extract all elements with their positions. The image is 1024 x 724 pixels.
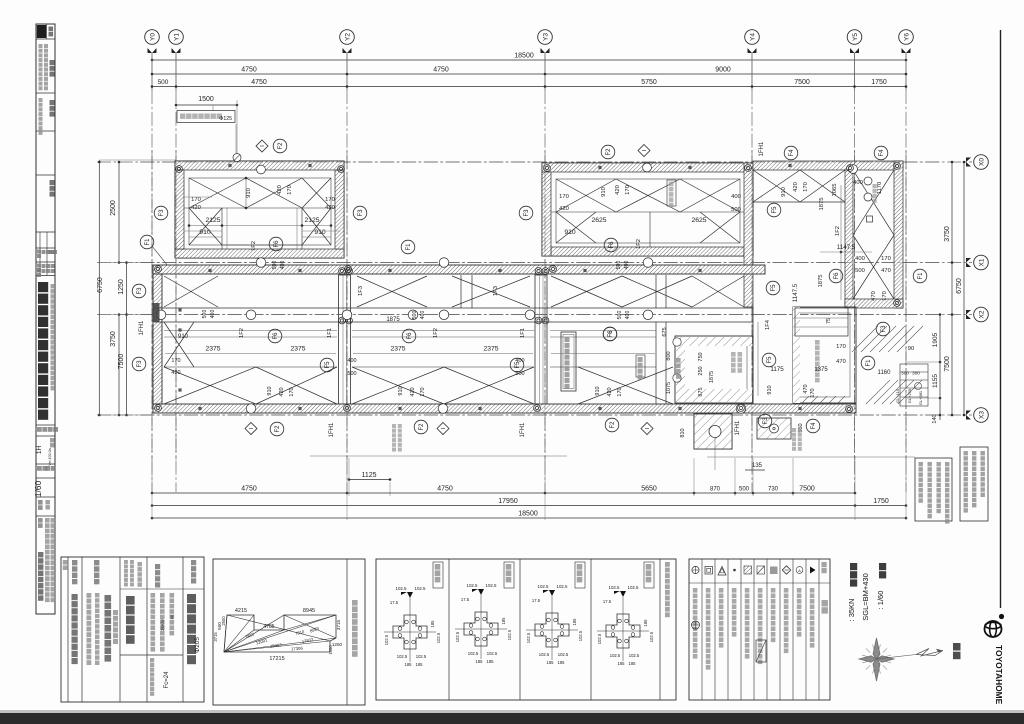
svg-text:170: 170 [289, 387, 295, 396]
svg-text:185: 185 [547, 660, 555, 665]
svg-text:F3: F3 [137, 287, 143, 295]
svg-text:675: 675 [662, 327, 668, 336]
title block frame [36, 24, 55, 614]
svg-text:500: 500 [617, 311, 623, 320]
svg-text:910: 910 [767, 385, 773, 394]
svg-text:420: 420 [171, 370, 180, 376]
svg-text:185: 185 [629, 661, 637, 666]
grid overlay lines [151, 150, 153, 460]
grid bubble X0 [974, 155, 989, 170]
grid bubble X1 [974, 255, 989, 270]
row3 mid line [164, 336, 337, 338]
svg-text:500: 500 [272, 261, 278, 270]
row3 mark F5 a [320, 358, 334, 372]
vertical wall x753 lower [752, 307, 754, 403]
wing label IFGao [873, 184, 877, 188]
svg-text:1F2: 1F2 [251, 241, 257, 251]
svg-text:170: 170 [881, 256, 891, 262]
title checker label [50, 180, 55, 185]
damp-proof concrete box [561, 332, 576, 391]
svg-text:F3: F3 [159, 209, 165, 217]
svg-text:Y0: Y0 [149, 33, 156, 41]
row1 braces [164, 276, 218, 307]
grid bubble Y2 [340, 30, 355, 45]
svg-text:1065: 1065 [832, 184, 838, 197]
svg-text:1F2: 1F2 [433, 328, 439, 338]
block A dim line 2125 [189, 225, 331, 227]
right mark F1 [913, 269, 927, 283]
svg-text:F2: F2 [275, 425, 281, 433]
svg-text:102.5: 102.5 [487, 651, 498, 656]
svg-text:2500: 2500 [221, 616, 226, 626]
svg-text:910: 910 [564, 229, 576, 236]
svg-text:1500: 1500 [328, 645, 333, 655]
svg-text:F5: F5 [771, 284, 777, 292]
block A wall hatch left [175, 170, 184, 249]
svg-text:185: 185 [416, 662, 424, 667]
svg-text:470: 470 [803, 384, 809, 393]
outline polygon [224, 615, 336, 652]
svg-text:810: 810 [680, 428, 686, 437]
svg-text:1750: 1750 [873, 498, 889, 505]
svg-text:170: 170 [617, 387, 623, 396]
anchor panel tsubasa [606, 614, 640, 648]
svg-text:500: 500 [412, 311, 418, 320]
svg-text:170: 170 [836, 344, 846, 350]
porch step block [694, 414, 732, 449]
svg-text:750: 750 [698, 352, 704, 361]
svg-text:F4: F4 [811, 422, 817, 430]
porch mark F4 [806, 419, 820, 433]
svg-text:1075: 1075 [666, 382, 672, 394]
svg-text:Y4: Y4 [749, 33, 756, 41]
svg-text:170: 170 [625, 185, 631, 195]
block B outer wall [542, 163, 753, 256]
svg-text:185: 185 [487, 659, 495, 664]
title product type row [37, 427, 42, 432]
outline diagonals [224, 615, 227, 652]
bottom dimension row1 [152, 492, 855, 494]
main left wall [153, 274, 162, 404]
bottom F3 mark [758, 414, 772, 428]
svg-text:102.5: 102.5 [557, 584, 569, 589]
block A wall hatch top [175, 161, 344, 170]
vent note label [177, 111, 235, 123]
svg-text:1875: 1875 [709, 371, 715, 383]
svg-text:F5: F5 [325, 361, 331, 369]
svg-text:1/60: 1/60 [33, 480, 43, 497]
block B right wall [744, 163, 753, 307]
block B mark F6 [604, 238, 618, 252]
spec col ground header [124, 560, 128, 564]
grid bubble Y3 [538, 30, 553, 45]
block A interior beams [184, 207, 335, 209]
block A braces [189, 178, 246, 208]
mid wall V2 [535, 275, 547, 404]
svg-text:500: 500 [731, 207, 741, 213]
svg-text:5750: 5750 [641, 79, 657, 86]
svg-text:1F3: 1F3 [358, 286, 364, 296]
svg-text:6750: 6750 [956, 278, 963, 294]
entrance slab [675, 336, 753, 403]
svg-text:F2: F2 [610, 421, 616, 429]
svg-text:4785: 4785 [263, 624, 274, 630]
svg-text:TOYOTAHOME: TOYOTAHOME [994, 645, 1004, 705]
svg-text:300: 300 [912, 371, 920, 376]
courtyard mark F5 [766, 281, 780, 295]
svg-text:Ver.103.0a: Ver.103.0a [48, 448, 52, 465]
vent circle on block A top [233, 154, 241, 162]
svg-text:1FH1: 1FH1 [520, 422, 526, 437]
svg-text:1170: 1170 [877, 182, 883, 194]
svg-text:102.5: 102.5 [538, 584, 550, 589]
outline box frame [213, 559, 365, 705]
svg-text:170: 170 [191, 197, 201, 203]
svg-text:F1: F1 [406, 243, 412, 251]
svg-text:800: 800 [666, 351, 672, 360]
spec col ground body [126, 596, 135, 605]
svg-text:18500: 18500 [518, 511, 538, 518]
svg-text:X1: X1 [978, 258, 985, 266]
outline box title [352, 600, 358, 606]
svg-text:420: 420 [615, 185, 621, 195]
main bottom band H4 [153, 404, 856, 413]
bottom row annotation diamonds [245, 423, 257, 435]
svg-text:470: 470 [881, 268, 891, 274]
entrance slab label [731, 352, 736, 357]
svg-text:1H: 1H [36, 446, 43, 455]
note box autodoor [960, 447, 988, 521]
svg-text:GL+381: GL+381 [918, 390, 923, 405]
title scale cell [37, 466, 42, 471]
north compass star [859, 638, 894, 681]
grid bubble Y5 [847, 30, 862, 45]
grid line Y5 [854, 53, 856, 90]
svg-text:170: 170 [420, 387, 426, 396]
spec col method body [151, 593, 156, 598]
svg-text:1F1: 1F1 [327, 328, 333, 338]
main top band H2 [153, 265, 765, 274]
top mark F2 B [601, 145, 615, 159]
north label [953, 643, 961, 651]
svg-text:910: 910 [267, 386, 273, 395]
svg-text:910: 910 [178, 334, 189, 340]
right wing right wall [894, 161, 903, 308]
top dimension row2 4750/4750/9000 [152, 73, 906, 75]
row3 dim line 2375 [165, 353, 336, 355]
grid line Y3 [544, 53, 546, 90]
svg-text:420: 420 [793, 182, 799, 192]
svg-text:102.5: 102.5 [416, 654, 427, 659]
left dimension 6750 [98, 160, 100, 415]
vent dim stub [212, 105, 214, 111]
bottom marks F2 [270, 422, 284, 436]
svg-text:400: 400 [347, 358, 356, 364]
svg-text:17215: 17215 [269, 656, 284, 662]
bottom dimension 135 [745, 469, 765, 471]
svg-text:17.5: 17.5 [603, 599, 612, 604]
svg-text:185: 185 [501, 617, 506, 625]
svg-text:910: 910 [314, 229, 326, 236]
bottom dimension 17950 [152, 505, 855, 507]
svg-text:Y5: Y5 [852, 33, 859, 41]
left dim connectors [99, 159, 176, 161]
row3 divider [655, 322, 657, 404]
spec col underfloor [72, 560, 77, 565]
anchor bolts [176, 166, 183, 173]
bottom dimension 1125 [349, 479, 390, 481]
block B insulation note [667, 180, 676, 206]
svg-text:875: 875 [698, 387, 704, 396]
svg-text:F5: F5 [767, 356, 773, 364]
svg-text:4750: 4750 [241, 67, 257, 74]
girder band X2 [154, 307, 753, 309]
svg-text:170: 170 [325, 197, 335, 203]
title block row lines [36, 38, 55, 40]
svg-text:185: 185 [572, 618, 577, 626]
svg-text:9000: 9000 [715, 67, 731, 74]
svg-text:400: 400 [855, 256, 865, 262]
svg-text:420: 420 [559, 206, 569, 212]
svg-text:420: 420 [607, 387, 613, 396]
title designer2 label [50, 100, 55, 105]
top mark F2 A [273, 139, 287, 153]
grid line Y6 [905, 53, 907, 90]
svg-text:102.5: 102.5 [610, 653, 621, 658]
legend sub square [756, 640, 766, 662]
vent leader [235, 124, 237, 153]
svg-text:7500: 7500 [794, 79, 810, 86]
anchor panel soto-sumi [464, 612, 498, 646]
svg-text:420: 420 [279, 387, 285, 396]
bottom black strip [0, 713, 1024, 724]
anchor box frame [376, 559, 676, 700]
svg-text:2125: 2125 [205, 217, 220, 224]
svg-text:1147.5: 1147.5 [792, 283, 799, 302]
row3 braces [164, 367, 256, 404]
svg-text:2500: 2500 [110, 200, 117, 216]
sleeve leader line [310, 455, 567, 457]
svg-text:500: 500 [347, 371, 356, 377]
svg-text:102.5: 102.5 [397, 654, 408, 659]
svg-text:420: 420 [325, 205, 335, 211]
svg-text:Y6: Y6 [903, 33, 910, 41]
svg-text:170: 170 [287, 185, 293, 195]
svg-text:F6: F6 [273, 332, 279, 340]
svg-text:102.5: 102.5 [455, 631, 460, 642]
svg-text:17.5: 17.5 [461, 597, 470, 602]
block A wall hatch bottom [175, 249, 344, 258]
svg-text:102.5: 102.5 [628, 585, 640, 590]
left dimension 2500 [118, 162, 120, 263]
toyota home logo mark [985, 621, 1002, 637]
svg-text:F5: F5 [772, 206, 778, 214]
svg-text:102.5: 102.5 [467, 583, 479, 588]
svg-text:910: 910 [781, 187, 787, 197]
svg-text:170: 170 [171, 358, 180, 364]
svg-text:1125: 1125 [361, 472, 376, 479]
grid line Y0 [151, 53, 153, 90]
svg-text:F1: F1 [866, 359, 872, 367]
svg-text:1875: 1875 [819, 198, 825, 211]
svg-text:75: 75 [826, 318, 832, 324]
anchor box title [665, 562, 670, 567]
small step block [757, 418, 791, 439]
block B wall hatch bottom [551, 247, 744, 256]
right dimension 3750 [951, 162, 953, 415]
anchor panel hashira-uke [535, 613, 569, 647]
courtyard top braces [753, 201, 845, 203]
svg-text:1375: 1375 [814, 367, 828, 373]
svg-text:7500: 7500 [944, 356, 951, 372]
grid line X3 [97, 414, 972, 416]
top mark F4 a [784, 146, 798, 160]
svg-text:F2: F2 [419, 423, 425, 431]
pier circles on X2 band [156, 310, 166, 320]
spec table frame [61, 557, 204, 702]
svg-text:F6: F6 [407, 332, 413, 340]
legend header [822, 562, 827, 567]
svg-text:400: 400 [280, 261, 286, 270]
svg-text:F6: F6 [834, 272, 840, 280]
left wall vent opening [154, 303, 160, 322]
svg-text:102.5: 102.5 [629, 653, 640, 658]
svg-text:185: 185 [618, 661, 626, 666]
svg-text:: 35KN: : 35KN [847, 599, 856, 622]
svg-text:2625: 2625 [591, 217, 606, 224]
spec col remarks [63, 560, 68, 565]
courtyard divider line [840, 185, 842, 300]
svg-text:2375: 2375 [290, 346, 305, 353]
svg-text:102.5: 102.5 [578, 630, 583, 641]
spec col insulation [94, 560, 99, 565]
title construction cell [38, 500, 43, 505]
left foundation mark F3 lower [132, 357, 146, 371]
anchor panel iri-sumi [393, 615, 427, 649]
top-right wall band [753, 161, 903, 170]
svg-text:1875: 1875 [818, 275, 824, 288]
svg-text:470: 470 [836, 359, 846, 365]
row3 upper line b [164, 330, 337, 332]
row3 mark F6 a [268, 329, 282, 343]
svg-text:102.5: 102.5 [415, 586, 427, 591]
scale note line1 [879, 563, 886, 570]
svg-text:Φ125: Φ125 [219, 116, 232, 122]
svg-text:F2: F2 [606, 148, 612, 156]
legend names [693, 588, 698, 593]
svg-text:420: 420 [191, 205, 201, 211]
left foundation mark F1 [140, 235, 154, 249]
grid bubble Y4 [745, 30, 760, 45]
grid bubble X3 [974, 408, 989, 423]
scale note line3 [850, 563, 857, 570]
bottom dimension 18500 [152, 517, 906, 519]
wing wall circles [864, 177, 872, 185]
row3 small brace left [164, 322, 194, 367]
sleeve note a [392, 424, 396, 428]
svg-text:910: 910 [601, 187, 607, 197]
left dimension 3750 [118, 315, 120, 416]
grid line Y2 [346, 53, 348, 90]
svg-text:4750: 4750 [433, 67, 449, 74]
terrace hatch stripes upper [852, 326, 878, 352]
svg-text:870: 870 [710, 487, 721, 493]
svg-text:1F2: 1F2 [239, 328, 245, 338]
block B wall hatch left [542, 172, 551, 256]
svg-text:F3: F3 [524, 209, 530, 217]
grid line Y4 [751, 53, 753, 90]
title drawing name [38, 552, 43, 557]
svg-text:910: 910 [199, 229, 211, 236]
svg-text:910: 910 [595, 386, 601, 395]
svg-text:500: 500 [202, 310, 208, 319]
svg-text:400: 400 [624, 261, 630, 270]
svg-text:185: 185 [476, 659, 484, 664]
svg-text:1F2: 1F2 [636, 239, 642, 249]
pier circles on X1 band [256, 258, 266, 268]
svg-text:F3: F3 [763, 417, 769, 425]
svg-text:420: 420 [410, 387, 416, 396]
svg-text:1FH1: 1FH1 [735, 420, 741, 435]
svg-text:17.5: 17.5 [390, 600, 399, 605]
grid bubble Y6 [899, 30, 914, 45]
svg-text:SGL=BM+430: SGL=BM+430 [861, 573, 870, 621]
svg-text:Fc=24: Fc=24 [164, 671, 170, 689]
svg-text:GL+250: GL+250 [907, 388, 912, 403]
svg-text:8945: 8945 [303, 608, 315, 614]
svg-text:1FH1: 1FH1 [139, 320, 145, 335]
svg-text:170: 170 [882, 291, 888, 301]
sheet right border [1000, 30, 1002, 608]
strip mark F5 [762, 353, 776, 367]
spec col foundation spec [191, 560, 196, 565]
right dimension 6750 [963, 162, 965, 415]
svg-text:2625: 2625 [691, 217, 706, 224]
block B braces [556, 179, 616, 212]
svg-text:102.5: 102.5 [649, 631, 654, 642]
svg-text:135: 135 [752, 463, 763, 469]
svg-text:7500: 7500 [118, 354, 125, 370]
bottom dimension 1750 [855, 505, 906, 507]
svg-text:17306: 17306 [291, 646, 304, 652]
block B wall hatch top [542, 163, 753, 172]
svg-text:1F4: 1F4 [765, 319, 771, 330]
right slab [793, 307, 856, 403]
grid line X2 [97, 314, 972, 316]
svg-text:A: A [798, 568, 801, 573]
gap mark F1 [401, 240, 415, 254]
svg-text:F4: F4 [789, 149, 795, 157]
svg-text:2375: 2375 [483, 346, 498, 353]
svg-text:1F2: 1F2 [835, 226, 841, 236]
legend table frame [689, 559, 830, 700]
svg-text:500: 500 [616, 261, 622, 270]
svg-text:F1: F1 [145, 238, 151, 246]
svg-text:F2: F2 [278, 142, 284, 150]
wing step slab [795, 308, 848, 336]
svg-text:300: 300 [901, 371, 909, 376]
mid wall V1 [339, 275, 351, 404]
svg-text:250: 250 [698, 366, 704, 375]
title company name [38, 282, 48, 292]
svg-text:46: 46 [170, 614, 175, 619]
svg-text:3750: 3750 [944, 226, 951, 242]
top mark F4 b [874, 146, 888, 160]
block B inner footing line [556, 179, 740, 243]
svg-text:400: 400 [625, 311, 631, 320]
gap mark F3 left [154, 206, 168, 220]
svg-text:185: 185 [643, 619, 648, 627]
